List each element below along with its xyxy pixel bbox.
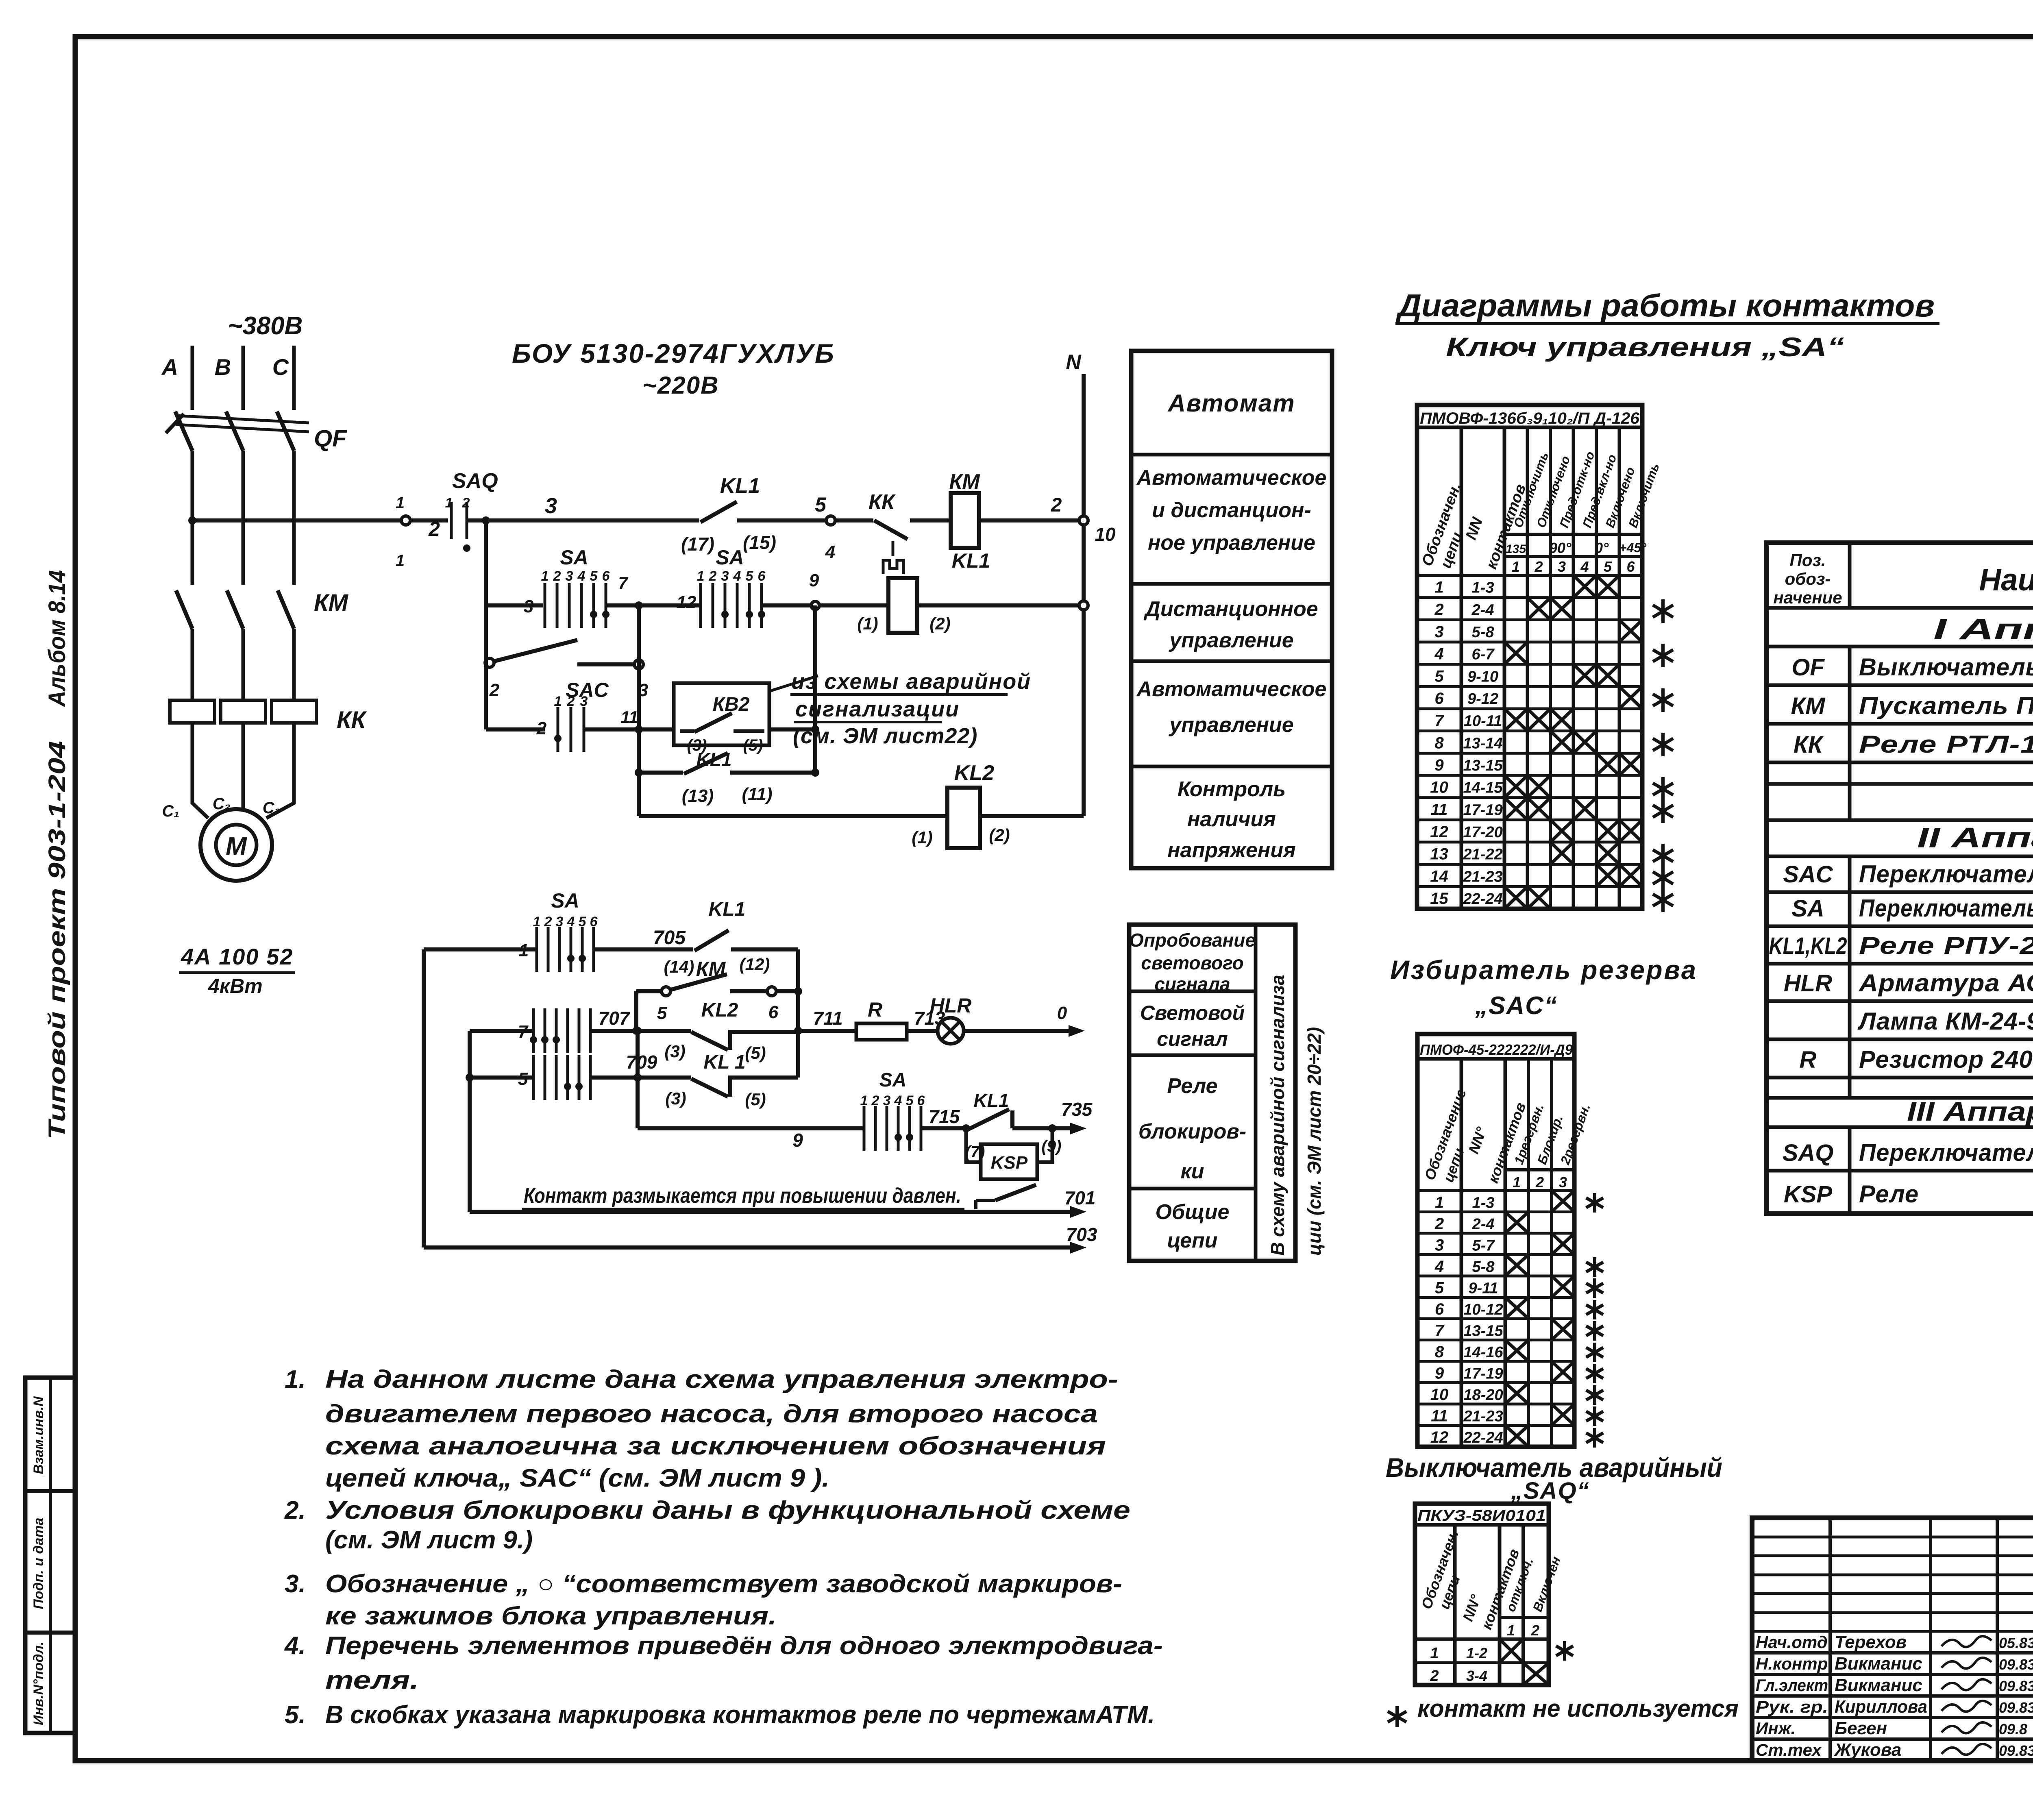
svg-text:05.83: 05.83: [1999, 1635, 2033, 1651]
svg-text:KL1: KL1: [952, 549, 990, 572]
svg-text:10: 10: [1095, 524, 1116, 545]
svg-text:БОУ 5130-2974ГУХЛУБ: БОУ 5130-2974ГУХЛУБ: [512, 338, 835, 368]
svg-text:4: 4: [733, 568, 741, 584]
svg-text:5-7: 5-7: [1472, 1237, 1495, 1254]
svg-text:11: 11: [1431, 1407, 1448, 1425]
svg-text:6: 6: [1626, 558, 1635, 575]
svg-text:Контроль: Контроль: [1178, 777, 1286, 801]
svg-text:двигателем первого насоса, д: двигателем первого насоса, для второго н…: [325, 1400, 1098, 1428]
svg-text:707: 707: [599, 1008, 631, 1029]
svg-text:7: 7: [1434, 712, 1444, 730]
svg-text:1: 1: [1435, 1194, 1444, 1212]
svg-text:9: 9: [792, 1130, 803, 1151]
svg-text:С₁: С₁: [162, 802, 180, 820]
svg-text:2: 2: [871, 1093, 879, 1108]
svg-text:ции (см. ЭМ лист 20÷22): ции (см. ЭМ лист 20÷22): [1304, 1027, 1325, 1256]
svg-text:обоз-: обоз-: [1785, 569, 1831, 588]
svg-text:наличия: наличия: [1187, 808, 1276, 831]
svg-text:R: R: [868, 998, 882, 1021]
svg-text:контакт не используется: контакт не используется: [1417, 1695, 1739, 1722]
svg-text:5: 5: [657, 1003, 667, 1023]
svg-text:R: R: [1800, 1047, 1817, 1073]
svg-text:Контакт размыкается при повыше: Контакт размыкается при повышении давлен…: [524, 1184, 961, 1208]
svg-text:22-24: 22-24: [1463, 890, 1502, 908]
svg-text:2: 2: [553, 568, 561, 584]
svg-text:светового: светового: [1141, 952, 1243, 973]
svg-text:сигнализации: сигнализации: [795, 697, 960, 721]
svg-text:13-15: 13-15: [1463, 757, 1503, 774]
svg-text:3: 3: [1559, 1174, 1567, 1191]
svg-text:В схему аварийной сигнализа: В схему аварийной сигнализа: [1267, 975, 1288, 1256]
svg-text:2: 2: [1051, 494, 1062, 516]
svg-text:Нач.отд: Нач.отд: [1756, 1633, 1828, 1652]
svg-text:3: 3: [566, 568, 573, 584]
svg-text:цепей ключа„ SAC“ (см. ЭМ: цепей ключа„ SAC“ (см. ЭМ лист 9 ).: [325, 1464, 829, 1492]
svg-text:5: 5: [1604, 558, 1612, 575]
svg-text:цепи: цепи: [1167, 1229, 1217, 1252]
svg-text:I Аппараты на НКУ: I Аппараты на НКУ: [1933, 613, 2033, 646]
svg-text:SA: SA: [1791, 895, 1824, 922]
svg-text:4А 100 52: 4А 100 52: [181, 944, 293, 969]
svg-text:(1): (1): [912, 828, 932, 847]
svg-text:KSP: KSP: [991, 1153, 1028, 1173]
svg-text:КМ: КМ: [696, 958, 726, 980]
svg-text:3: 3: [545, 494, 557, 518]
svg-text:Беген: Беген: [1835, 1718, 1887, 1738]
svg-text:1.: 1.: [285, 1365, 306, 1393]
svg-text:6: 6: [1435, 1300, 1444, 1318]
svg-text:Условия блокировки даны в: Условия блокировки даны в функциональной…: [325, 1496, 1130, 1524]
svg-text:(2): (2): [929, 614, 950, 633]
svg-text:Лампа КМ-24-90: Лампа КМ-24-90: [1857, 1008, 2033, 1035]
svg-text:Резистор 2400 Ом: Резистор 2400 Ом: [1859, 1046, 2033, 1073]
svg-text:2: 2: [1535, 1174, 1544, 1191]
svg-text:4.: 4.: [284, 1632, 306, 1660]
svg-text:На данном листе дана схема: На данном листе дана схема управления эл…: [325, 1365, 1118, 1393]
svg-text:Автоматическое: Автоматическое: [1136, 677, 1327, 701]
svg-text:2: 2: [489, 680, 500, 700]
svg-text:и дистанцион-: и дистанцион-: [1152, 499, 1311, 522]
svg-text:10-12: 10-12: [1463, 1301, 1503, 1318]
svg-text:Ключ управления „SA“: Ключ управления „SA“: [1446, 332, 1844, 362]
svg-text:ПМОВФ-136б₃9₁10₂/П Д-126: ПМОВФ-136б₃9₁10₂/П Д-126: [1420, 409, 1640, 427]
svg-text:напряжения: напряжения: [1167, 838, 1295, 862]
svg-text:3: 3: [556, 914, 564, 930]
svg-text:сигнала: сигнала: [1154, 973, 1230, 995]
svg-text:ПМОФ-45-222222/И-Д9: ПМОФ-45-222222/И-Д9: [1420, 1041, 1573, 1058]
svg-text:KSP: KSP: [1784, 1181, 1833, 1208]
svg-text:17-20: 17-20: [1463, 824, 1502, 841]
svg-text:начение: начение: [1773, 588, 1842, 607]
svg-text:SA: SA: [560, 546, 588, 569]
svg-text:Перечень элементов приведён: Перечень элементов приведён для одного э…: [325, 1632, 1163, 1660]
svg-text:9-11: 9-11: [1468, 1280, 1498, 1297]
svg-text:1: 1: [860, 1093, 868, 1108]
svg-text:SA: SA: [879, 1069, 907, 1091]
svg-text:10: 10: [1430, 779, 1448, 797]
svg-text:2: 2: [1531, 1622, 1539, 1639]
svg-text:2: 2: [1430, 1668, 1439, 1685]
svg-text:1: 1: [697, 568, 705, 584]
svg-text:1: 1: [445, 495, 453, 511]
svg-text:SA: SA: [551, 889, 579, 912]
svg-text:Альбом 8.14: Альбом 8.14: [44, 570, 70, 708]
svg-text:Реле РТЛ-101004 Iуст-: Реле РТЛ-101004 Iуст-7,8А: [1859, 731, 2033, 758]
svg-text:3: 3: [721, 568, 729, 584]
svg-text:Поз.: Поз.: [1790, 551, 1826, 570]
svg-text:3: 3: [883, 1093, 891, 1108]
svg-text:SAC: SAC: [1783, 861, 1833, 888]
svg-text:„SAQ“: „SAQ“: [1511, 1478, 1590, 1504]
svg-text:4: 4: [894, 1093, 902, 1108]
svg-text:KL 1: KL 1: [703, 1052, 745, 1073]
svg-text:709: 709: [626, 1052, 657, 1073]
svg-text:ки: ки: [1180, 1160, 1204, 1183]
svg-text:схема аналогична за исключе: схема аналогична за исключением обозначе…: [325, 1432, 1106, 1460]
svg-text:4кВт: 4кВт: [208, 975, 263, 997]
svg-text:теля.: теля.: [325, 1666, 419, 1694]
svg-text:(11): (11): [742, 784, 773, 804]
svg-text:1-2: 1-2: [1466, 1645, 1487, 1661]
svg-text:Автоматическое: Автоматическое: [1136, 466, 1327, 490]
svg-text:Дистанционное: Дистанционное: [1143, 597, 1318, 621]
svg-text:1-3: 1-3: [1472, 579, 1494, 597]
svg-text:(17): (17): [681, 533, 714, 555]
svg-text:Арматура АС12011У2 И~220: Арматура АС12011У2 И~220: [1858, 969, 2033, 997]
svg-text:1-3: 1-3: [1472, 1195, 1495, 1212]
svg-text:Световой: Световой: [1140, 1001, 1245, 1024]
svg-text:6: 6: [602, 568, 610, 584]
svg-text:KL2: KL2: [954, 761, 994, 785]
svg-text:3: 3: [1558, 558, 1566, 575]
svg-text:III Аппараты у электродви: III Аппараты у электродвигателя: [1907, 1096, 2033, 1126]
svg-text:КК: КК: [1794, 731, 1824, 758]
svg-text:17-19: 17-19: [1463, 1365, 1503, 1382]
svg-text:блокиров-: блокиров-: [1138, 1120, 1246, 1143]
svg-text:6: 6: [1434, 690, 1444, 708]
svg-text:из схемы аварийной: из схемы аварийной: [791, 669, 1031, 694]
svg-text:Диаграммы работы контактов: Диаграммы работы контактов: [1395, 287, 1935, 323]
svg-text:2: 2: [1434, 601, 1443, 618]
svg-text:09.83: 09.83: [1999, 1656, 2033, 1673]
svg-text:09.83: 09.83: [1999, 1742, 2033, 1759]
svg-text:15: 15: [1430, 890, 1448, 908]
svg-text:4: 4: [577, 568, 586, 584]
svg-text:09.83: 09.83: [1999, 1699, 2033, 1716]
svg-text:701: 701: [1064, 1187, 1096, 1208]
svg-text:Ст.тех: Ст.тех: [1756, 1740, 1822, 1759]
svg-text:8: 8: [1435, 1343, 1444, 1361]
svg-text:2-4: 2-4: [1471, 601, 1494, 618]
svg-text:Взам.инв.N: Взам.инв.N: [31, 1396, 46, 1474]
svg-text:5: 5: [590, 568, 598, 584]
svg-text:2: 2: [544, 914, 552, 930]
svg-text:2-4: 2-4: [1472, 1216, 1495, 1233]
svg-text:21-23: 21-23: [1463, 868, 1502, 885]
svg-text:4: 4: [825, 542, 835, 562]
svg-text:12: 12: [1430, 823, 1448, 841]
svg-text:13-15: 13-15: [1463, 1323, 1503, 1340]
svg-text:13: 13: [1430, 845, 1448, 863]
svg-text:705: 705: [653, 927, 686, 949]
svg-text:(5): (5): [745, 1090, 766, 1109]
svg-text:1: 1: [1507, 1622, 1515, 1639]
svg-text:12: 12: [677, 592, 697, 612]
svg-text:1: 1: [554, 694, 562, 709]
svg-text:ВыключательАЕ2016-10НУЗ Iр: ВыключательАЕ2016-10НУЗ Iр 10А: [1859, 653, 2033, 681]
svg-text:SAQ: SAQ: [452, 469, 498, 493]
svg-text:11: 11: [620, 708, 638, 727]
svg-text:5: 5: [746, 568, 754, 584]
svg-text:Инв.N°подл.: Инв.N°подл.: [31, 1641, 46, 1725]
svg-text:135: 135: [1506, 542, 1526, 556]
svg-text:4: 4: [567, 914, 575, 930]
svg-text:5-8: 5-8: [1472, 1258, 1495, 1276]
svg-text:1: 1: [396, 494, 405, 512]
svg-text:Викманис: Викманис: [1835, 1675, 1922, 1695]
svg-text:5: 5: [1434, 667, 1444, 685]
svg-text:(12): (12): [740, 955, 770, 974]
svg-text:„SAC“: „SAC“: [1475, 992, 1558, 1020]
svg-text:SAQ: SAQ: [1783, 1140, 1834, 1166]
svg-text:715: 715: [929, 1106, 960, 1127]
svg-text:22-24: 22-24: [1463, 1429, 1503, 1446]
svg-text:Общие: Общие: [1156, 1200, 1230, 1224]
svg-text:(2): (2): [989, 825, 1010, 845]
svg-text:+45°: +45°: [1619, 540, 1646, 555]
svg-text:Рук. гр.: Рук. гр.: [1756, 1697, 1828, 1716]
svg-text:ПКУЗ-58И0101: ПКУЗ-58И0101: [1417, 1507, 1546, 1524]
svg-text:2: 2: [536, 718, 547, 738]
svg-text:10-11: 10-11: [1464, 713, 1502, 730]
svg-text:KL1,KL2: KL1,KL2: [1769, 933, 1847, 959]
svg-text:10: 10: [1430, 1386, 1449, 1404]
svg-text:Жукова: Жукова: [1834, 1740, 1901, 1760]
svg-text:II Аппараты на щите КИП: II Аппараты на щите КИП: [1917, 822, 2033, 853]
svg-text:14-15: 14-15: [1463, 779, 1503, 797]
svg-text:1: 1: [1430, 1645, 1439, 1662]
svg-text:735: 735: [1061, 1099, 1093, 1120]
svg-text:SA: SA: [716, 546, 744, 569]
svg-text:Реле РПУ-2 ~220В К: Реле РПУ-2 ~220В К=4₃+4р: [1859, 932, 2033, 959]
svg-text:6: 6: [590, 914, 598, 930]
svg-text:(см. ЭМ лист 9.): (см. ЭМ лист 9.): [325, 1526, 533, 1554]
svg-text:21-23: 21-23: [1463, 1408, 1503, 1425]
svg-text:1: 1: [519, 940, 529, 960]
svg-text:сигнал: сигнал: [1157, 1028, 1228, 1050]
svg-text:(3): (3): [664, 1042, 685, 1061]
svg-text:КК: КК: [868, 490, 896, 514]
svg-text:HLR: HLR: [1784, 970, 1832, 997]
svg-text:Опробование: Опробование: [1129, 930, 1256, 951]
svg-text:М: М: [226, 832, 247, 860]
svg-text:В: В: [215, 354, 231, 380]
svg-text:С: С: [272, 354, 289, 380]
svg-text:Переключатель ПМОВФ-136б₃9,10₂: Переключатель ПМОВФ-136б₃9,10₂/II-Д126: [1859, 895, 2033, 922]
svg-text:Обозначение „ ○ “соответствует: Обозначение „ ○ “соответствует заводской…: [325, 1570, 1122, 1598]
svg-text:0°: 0°: [1595, 540, 1609, 556]
svg-text:2: 2: [462, 495, 470, 511]
svg-text:5.: 5.: [285, 1701, 306, 1729]
svg-text:5: 5: [815, 493, 827, 516]
svg-text:Гл.элект: Гл.элект: [1756, 1676, 1828, 1695]
svg-text:Типовой проект 903-1-204: Типовой проект 903-1-204: [44, 741, 70, 1139]
svg-text:4: 4: [1434, 1258, 1444, 1276]
svg-text:8: 8: [1434, 734, 1444, 752]
svg-text:3: 3: [1435, 1237, 1444, 1254]
svg-text:2: 2: [428, 518, 440, 540]
svg-text:управление: управление: [1168, 713, 1293, 737]
svg-text:5: 5: [518, 1069, 528, 1089]
svg-text:Кириллова: Кириллова: [1835, 1697, 1927, 1717]
svg-text:КМ: КМ: [314, 590, 349, 616]
svg-text:3: 3: [1434, 623, 1443, 641]
svg-text:711: 711: [813, 1008, 842, 1029]
svg-text:09.8: 09.8: [1999, 1721, 2027, 1737]
svg-text:4: 4: [1434, 645, 1443, 663]
svg-text:11: 11: [1431, 801, 1448, 819]
svg-text:ное управление: ное управление: [1148, 531, 1315, 555]
svg-text:9: 9: [1434, 756, 1444, 774]
svg-text:Н.контр: Н.контр: [1756, 1654, 1828, 1673]
svg-text:(см. ЭМ лист22): (см. ЭМ лист22): [793, 724, 977, 748]
svg-text:HLR: HLR: [930, 994, 972, 1017]
svg-text:КК: КК: [337, 707, 367, 733]
svg-text:5: 5: [906, 1093, 914, 1108]
svg-text:21-22: 21-22: [1463, 846, 1502, 863]
svg-text:~220В: ~220В: [642, 372, 719, 399]
svg-text:Реле: Реле: [1167, 1074, 1217, 1098]
svg-text:3.: 3.: [285, 1570, 306, 1598]
svg-text:А: А: [161, 354, 178, 380]
svg-text:КМ: КМ: [949, 470, 980, 494]
svg-text:2.: 2.: [284, 1496, 306, 1524]
svg-text:Реле: Реле: [1859, 1180, 1919, 1208]
svg-text:2: 2: [709, 568, 717, 584]
svg-text:OF: OF: [1791, 654, 1825, 681]
svg-text:С₃: С₃: [263, 799, 281, 817]
svg-text:1: 1: [1434, 579, 1443, 597]
svg-text:6: 6: [758, 568, 766, 584]
svg-text:14: 14: [1430, 867, 1448, 885]
svg-text:(5): (5): [745, 1043, 766, 1062]
svg-text:5: 5: [1435, 1279, 1444, 1297]
svg-text:~380В: ~380В: [228, 312, 303, 340]
svg-text:5-8: 5-8: [1472, 624, 1495, 641]
svg-text:KL1: KL1: [974, 1090, 1009, 1111]
svg-text:2: 2: [1434, 1215, 1444, 1233]
svg-text:2: 2: [1534, 558, 1543, 575]
svg-text:управление: управление: [1168, 629, 1293, 652]
svg-text:(14): (14): [664, 957, 694, 976]
svg-text:7: 7: [1435, 1322, 1445, 1340]
svg-text:1: 1: [396, 552, 405, 570]
svg-text:9-12: 9-12: [1467, 690, 1498, 708]
svg-text:17-19: 17-19: [1463, 801, 1502, 819]
svg-text:(1): (1): [857, 614, 878, 633]
svg-text:3: 3: [524, 597, 533, 616]
svg-text:Наименование: Наименование: [1979, 563, 2033, 597]
svg-text:В скобках указана маркировка: В скобках указана маркировка контактов р…: [325, 1701, 1155, 1729]
svg-text:7: 7: [518, 1022, 529, 1042]
svg-text:Инж.: Инж.: [1756, 1719, 1796, 1738]
svg-text:Пускатель ПМЛ110004Б И~22: Пускатель ПМЛ110004Б И~220В: [1859, 692, 2033, 719]
svg-text:1: 1: [1513, 1174, 1521, 1191]
svg-text:Переключатель ПМОФ45-222222/I: Переключатель ПМОФ45-222222/II-Д9: [1859, 860, 2033, 888]
svg-text:QF: QF: [314, 425, 347, 452]
svg-text:9: 9: [809, 570, 819, 590]
svg-text:6: 6: [917, 1093, 925, 1108]
svg-text:6-7: 6-7: [1472, 646, 1495, 663]
svg-text:13-14: 13-14: [1463, 735, 1502, 752]
svg-text:1: 1: [541, 568, 549, 584]
svg-text:KL1: KL1: [709, 899, 746, 920]
svg-text:Викманис: Викманис: [1835, 1654, 1922, 1674]
svg-text:ке зажимов блока управлени: ке зажимов блока управления.: [325, 1602, 777, 1630]
svg-text:14-16: 14-16: [1463, 1344, 1503, 1361]
svg-text:9-10: 9-10: [1467, 668, 1498, 685]
svg-text:7: 7: [618, 573, 628, 592]
svg-text:(15): (15): [743, 532, 776, 553]
svg-text:Избиратель резерва: Избиратель резерва: [1390, 955, 1698, 985]
svg-text:0: 0: [1057, 1003, 1067, 1023]
svg-text:1: 1: [1512, 558, 1520, 575]
svg-text:Автомат: Автомат: [1167, 390, 1295, 417]
svg-text:18-20: 18-20: [1463, 1387, 1503, 1404]
svg-text:KL1: KL1: [720, 474, 760, 498]
svg-text:KL2: KL2: [701, 999, 738, 1021]
svg-text:9: 9: [1435, 1365, 1444, 1382]
svg-text:(3): (3): [665, 1089, 686, 1108]
svg-text:3-4: 3-4: [1466, 1668, 1487, 1684]
svg-text:09.83: 09.83: [1999, 1678, 2033, 1694]
svg-text:(5): (5): [743, 736, 763, 754]
svg-text:(13): (13): [682, 786, 714, 806]
svg-text:КМ: КМ: [1791, 693, 1826, 719]
svg-text:Терехов: Терехов: [1835, 1632, 1907, 1652]
svg-text:6: 6: [768, 1002, 779, 1022]
svg-text:5: 5: [579, 914, 587, 930]
svg-text:Подп. и дата: Подп. и дата: [31, 1517, 46, 1609]
svg-text:SAC: SAC: [566, 679, 609, 701]
svg-text:4: 4: [1580, 558, 1589, 575]
svg-text:12: 12: [1430, 1428, 1449, 1446]
svg-text:703: 703: [1066, 1224, 1097, 1245]
svg-text:90°: 90°: [1549, 540, 1572, 556]
svg-text:ПереключательПКУЗ-58И0101: ПереключательПКУЗ-58И0101: [1859, 1139, 2033, 1166]
svg-text:N: N: [1066, 351, 1082, 374]
svg-text:1: 1: [533, 914, 541, 930]
